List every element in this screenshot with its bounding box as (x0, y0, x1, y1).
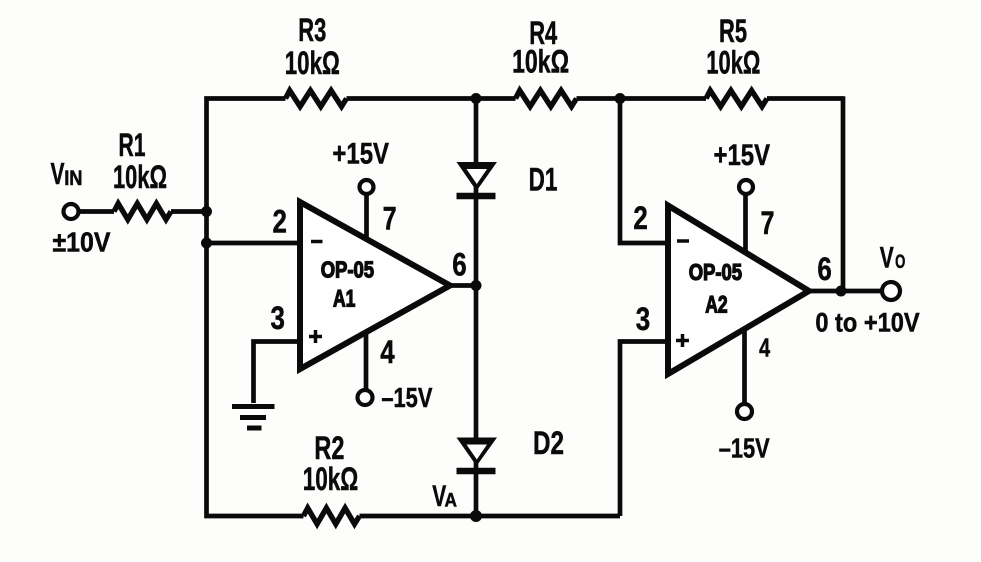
svg-text:–15V: –15V (381, 382, 432, 413)
svg-text:4: 4 (380, 334, 395, 370)
svg-text:V: V (880, 242, 894, 275)
svg-text:–15V: –15V (719, 433, 770, 464)
svg-text:10kΩ: 10kΩ (303, 461, 359, 497)
svg-text:V: V (51, 156, 65, 191)
svg-text:10kΩ: 10kΩ (706, 45, 760, 81)
svg-text:A1: A1 (333, 286, 355, 313)
svg-text:OP-05: OP-05 (321, 257, 375, 283)
svg-text:OP-05: OP-05 (689, 259, 743, 285)
svg-text:2: 2 (633, 200, 647, 236)
svg-text:7: 7 (383, 201, 397, 237)
svg-text:+15V: +15V (714, 139, 771, 172)
svg-text:7: 7 (761, 205, 775, 241)
svg-text:0 to +10V: 0 to +10V (815, 308, 919, 338)
svg-text:2: 2 (273, 204, 287, 240)
svg-text:6: 6 (817, 251, 831, 287)
svg-text:3: 3 (271, 300, 285, 336)
svg-text:+15V: +15V (332, 138, 389, 171)
svg-text:10kΩ: 10kΩ (512, 44, 569, 80)
svg-text:D2: D2 (533, 425, 564, 461)
svg-text:IN: IN (64, 167, 82, 190)
svg-text:10kΩ: 10kΩ (113, 159, 167, 195)
svg-text:±10V: ±10V (53, 227, 111, 258)
svg-text:A2: A2 (705, 291, 727, 318)
svg-text:4: 4 (759, 333, 770, 363)
svg-text:3: 3 (636, 301, 650, 337)
svg-text:6: 6 (452, 247, 466, 283)
svg-text:10kΩ: 10kΩ (285, 45, 340, 81)
svg-text:D1: D1 (529, 162, 558, 198)
svg-text:O: O (895, 252, 905, 273)
svg-text:R3: R3 (298, 12, 326, 48)
svg-text:A: A (445, 491, 458, 512)
svg-text:R1: R1 (119, 127, 146, 163)
